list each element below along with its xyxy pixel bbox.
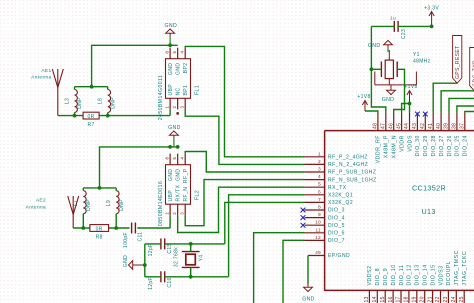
svg-text:45: 45: [396, 123, 402, 129]
svg-text:DIO_27: DIO_27: [439, 135, 445, 156]
svg-text:Y4: Y4: [198, 255, 204, 262]
svg-text:AE1: AE1: [41, 68, 51, 74]
svg-text:JTAG_TMSC: JTAG_TMSC: [454, 250, 460, 285]
svg-text:DIO_8: DIO_8: [375, 268, 381, 286]
junction: [168, 145, 172, 149]
svg-text:R8: R8: [96, 235, 103, 241]
junction: [189, 242, 193, 246]
wire: [433, 83, 457, 112]
svg-text:X32K_Q2: X32K_Q2: [328, 200, 353, 206]
svg-text:C23: C23: [401, 29, 407, 39]
svg-text:GND: GND: [175, 63, 181, 75]
svg-text:DIO_12: DIO_12: [407, 264, 413, 285]
svg-text:12pF: 12pF: [148, 244, 154, 257]
wire: [254, 233, 305, 303]
svg-text:DIO_26: DIO_26: [447, 135, 453, 156]
wire: [185, 180, 304, 226]
junction: [90, 85, 94, 89]
svg-text:14: 14: [372, 296, 378, 302]
svg-text:DIO_9: DIO_9: [383, 268, 389, 286]
svg-text:3: 3: [180, 212, 185, 215]
svg-text:DNP: DNP: [110, 97, 116, 109]
ground: [387, 90, 396, 94]
svg-text:41: 41: [428, 123, 434, 129]
svg-text:RF_N: RF_N: [183, 187, 189, 202]
svg-text:DIO_11: DIO_11: [399, 265, 405, 286]
wire: [92, 45, 178, 86]
svg-text:X32K_Q1: X32K_Q1: [328, 193, 353, 199]
svg-text:100pF: 100pF: [123, 232, 129, 248]
wire: [178, 187, 305, 232]
svg-text:Antenna: Antenna: [26, 205, 46, 211]
svg-text:Y1: Y1: [413, 52, 420, 58]
svg-text:VDDS2: VDDS2: [367, 265, 373, 285]
svg-text:47: 47: [381, 123, 387, 129]
junction: [176, 145, 180, 149]
wire: [370, 26, 372, 69]
svg-text:46: 46: [388, 123, 394, 129]
svg-text:DIO_25: DIO_25: [455, 135, 461, 156]
wire: [371, 25, 394, 27]
svg-text:C16: C16: [167, 277, 173, 287]
svg-text:DIO_3: DIO_3: [328, 208, 345, 214]
filter FL2: [166, 165, 191, 205]
wire: [409, 104, 411, 113]
svg-text:2450BM14G0011: 2450BM14G0011: [158, 75, 164, 120]
junction: [81, 226, 85, 230]
svg-text:GPS_RESET: GPS_RESET: [455, 45, 461, 79]
svg-text:0R: 0R: [88, 114, 95, 120]
svg-text:C11: C11: [137, 232, 143, 242]
svg-text:X48M_N: X48M_N: [392, 135, 398, 158]
svg-text:44: 44: [404, 123, 410, 129]
wire: [398, 25, 432, 27]
inductor L3: [75, 90, 78, 113]
svg-text:43: 43: [412, 123, 418, 129]
ground: [304, 287, 313, 291]
svg-text:1: 1: [165, 106, 170, 109]
no-connect pin 9: [301, 215, 306, 220]
svg-text:DIO_7: DIO_7: [328, 238, 345, 244]
svg-text:GND: GND: [168, 63, 174, 75]
wire: [145, 276, 161, 278]
svg-text:UBP: UBP: [168, 190, 174, 202]
svg-text:17: 17: [396, 296, 402, 302]
svg-text:X48M_P: X48M_P: [384, 135, 390, 158]
capacitor C11: [131, 223, 133, 234]
svg-text:1u: 1u: [390, 16, 396, 22]
no-connect pin 43: [415, 112, 420, 117]
resistor R8: [90, 225, 109, 232]
junction: [370, 67, 374, 71]
svg-text:48MHz: 48MHz: [413, 59, 431, 65]
svg-text:0R: 0R: [96, 226, 103, 232]
junction: [430, 25, 434, 29]
svg-text:19: 19: [412, 296, 418, 302]
inductor L8: [108, 90, 111, 113]
ground: [129, 261, 133, 270]
resistor R7: [83, 112, 99, 119]
svg-text:21: 21: [427, 296, 433, 302]
ground: [170, 131, 179, 135]
svg-text:3: 3: [180, 106, 185, 109]
svg-text:DNP: DNP: [77, 97, 83, 109]
wire: [145, 243, 161, 245]
inductor L9: [116, 191, 119, 214]
svg-text:RF_P_2_4GHZ: RF_P_2_4GHZ: [328, 155, 368, 161]
svg-text:0850BM14E0016: 0850BM14E0016: [158, 181, 164, 226]
svg-text:NC: NC: [175, 87, 181, 95]
svg-text:DIO_28: DIO_28: [431, 135, 437, 156]
crystal Y4: [186, 254, 196, 265]
junction: [114, 226, 118, 230]
svg-text:DIO_24: DIO_24: [463, 135, 469, 156]
power +1V8: [362, 101, 367, 106]
power +1V8: [407, 91, 412, 96]
svg-text:+1V8: +1V8: [404, 84, 417, 90]
svg-text:C15: C15: [167, 243, 173, 253]
junction: [189, 275, 193, 279]
wire: [75, 86, 108, 88]
crystal Y1: [380, 62, 382, 78]
svg-text:2: 2: [318, 159, 321, 164]
svg-text:RF_N_SUB_1GHZ: RF_N_SUB_1GHZ: [328, 177, 377, 183]
svg-text:16: 16: [388, 296, 394, 302]
svg-text:40: 40: [436, 123, 442, 129]
junction: [98, 186, 102, 190]
svg-text:U13: U13: [422, 207, 436, 216]
svg-text:22: 22: [435, 296, 441, 302]
svg-text:BP2: BP2: [183, 63, 189, 74]
IC U13 bottom pins: [368, 290, 370, 303]
svg-text:GND: GND: [168, 169, 174, 181]
svg-text:UBP: UBP: [168, 84, 174, 96]
svg-text:GND: GND: [165, 23, 178, 29]
svg-text:DIO_29: DIO_29: [423, 135, 429, 156]
svg-text:20: 20: [419, 296, 425, 302]
junction: [106, 114, 110, 118]
svg-text:12: 12: [315, 235, 321, 240]
svg-text:RF_P: RF_P: [183, 168, 189, 183]
svg-text:38: 38: [452, 123, 458, 129]
no-connect pin 8: [301, 208, 306, 213]
svg-text:DNP: DNP: [86, 199, 92, 211]
wire: [307, 256, 309, 285]
svg-text:8: 8: [165, 157, 170, 160]
svg-text:RF_P_SUB_1GHZ: RF_P_SUB_1GHZ: [328, 170, 376, 176]
svg-text:49: 49: [315, 250, 321, 255]
svg-text:DNP: DNP: [119, 199, 125, 211]
svg-text:7: 7: [318, 197, 321, 202]
svg-text:GND: GND: [382, 97, 395, 103]
svg-text:R7: R7: [88, 122, 95, 128]
svg-text:23: 23: [443, 296, 449, 302]
global label GPS_RESET: [453, 36, 462, 84]
capacitor C23: [393, 21, 395, 32]
svg-text:VDDR: VDDR: [399, 135, 405, 152]
svg-text:12pF: 12pF: [148, 277, 154, 290]
IC U13 top pins: [377, 113, 379, 131]
capacitor C16: [160, 271, 162, 282]
wire: [73, 227, 90, 229]
svg-text:CC1352R: CC1352R: [412, 183, 446, 192]
svg-text:5: 5: [318, 182, 321, 187]
wire: [169, 109, 171, 115]
svg-text:+3.3V: +3.3V: [424, 6, 439, 12]
wire: [169, 216, 171, 228]
svg-text:1: 1: [165, 212, 170, 215]
IC U13 left pins: [305, 156, 325, 158]
svg-text:4: 4: [180, 51, 185, 54]
svg-text:DCOUPL: DCOUPL: [446, 261, 452, 286]
svg-text:5: 5: [172, 157, 177, 160]
svg-text:42: 42: [420, 123, 426, 129]
svg-text:DIO_10: DIO_10: [391, 264, 397, 285]
svg-text:GND: GND: [175, 169, 181, 181]
svg-text:DIO_13: DIO_13: [415, 264, 421, 285]
svg-text:5: 5: [172, 51, 177, 54]
wire: [144, 244, 146, 277]
svg-text:DIO_4: DIO_4: [328, 215, 345, 221]
power +3.3V: [429, 12, 434, 17]
svg-text:37: 37: [460, 123, 466, 129]
ground: [166, 29, 175, 33]
svg-text:AE2: AE2: [36, 198, 46, 204]
junction: [168, 43, 172, 47]
svg-text:BP1: BP1: [183, 85, 189, 96]
svg-text:Antenna: Antenna: [31, 74, 51, 80]
wire: [229, 195, 305, 277]
svg-text:RX_TX: RX_TX: [328, 185, 347, 191]
svg-text:GND: GND: [123, 255, 129, 267]
wire: [365, 111, 378, 113]
svg-text:L3: L3: [64, 98, 70, 104]
svg-text:4: 4: [318, 174, 321, 179]
svg-text:48: 48: [373, 123, 379, 129]
svg-text:1: 1: [318, 151, 321, 156]
svg-text:24: 24: [451, 296, 457, 302]
svg-text:JTAG_TCKC: JTAG_TCKC: [462, 251, 468, 286]
svg-text:DIO_30: DIO_30: [415, 135, 421, 156]
svg-text:18: 18: [404, 296, 410, 302]
svg-text:GND: GND: [302, 297, 315, 303]
svg-text:RX/TX: RX/TX: [175, 184, 181, 201]
svg-text:9: 9: [318, 212, 321, 217]
svg-text:10: 10: [315, 220, 321, 225]
svg-text:RF_N_2_4GHZ: RF_N_2_4GHZ: [328, 162, 368, 168]
wire: [225, 202, 305, 244]
junction: [73, 114, 77, 118]
antenna AE2: [68, 196, 74, 215]
svg-text:L9: L9: [106, 200, 112, 206]
svg-text:GND: GND: [168, 125, 181, 131]
wire: [100, 147, 178, 188]
junction: [143, 263, 147, 267]
svg-text:6: 6: [318, 189, 321, 194]
svg-text:VDDS3: VDDS3: [438, 265, 444, 285]
wire: [371, 69, 385, 112]
no-connect pin 42: [423, 112, 428, 117]
wire: [394, 69, 405, 112]
svg-text:DIO_15: DIO_15: [430, 264, 436, 285]
no-connect pin 10: [301, 223, 306, 228]
svg-text:2: 2: [172, 106, 177, 109]
svg-text:8: 8: [165, 51, 170, 54]
inductor L7: [83, 191, 86, 214]
svg-text:8: 8: [318, 205, 321, 210]
svg-text:11: 11: [316, 227, 322, 232]
svg-text:DIO_6: DIO_6: [328, 231, 345, 237]
svg-text:2: 2: [172, 212, 177, 215]
wire: [185, 152, 304, 173]
global label (clipped): [470, 48, 474, 91]
svg-text:VDDS: VDDS: [407, 135, 413, 152]
svg-text:L7: L7: [73, 200, 79, 206]
wire: [185, 109, 304, 164]
svg-text:+1V8: +1V8: [357, 94, 370, 100]
filter FL1: [166, 59, 191, 99]
svg-text:L8: L8: [98, 98, 104, 104]
wire: [402, 104, 410, 113]
wire: [185, 46, 304, 156]
svg-text:GND: GND: [368, 43, 381, 49]
wire: [58, 115, 83, 117]
svg-text:4: 4: [180, 157, 185, 160]
ground: [384, 41, 393, 45]
svg-text:DIO_14: DIO_14: [423, 264, 429, 285]
junction: [408, 102, 412, 106]
svg-text:FL1: FL1: [195, 85, 201, 95]
svg-text:FL2: FL2: [195, 190, 201, 200]
svg-text:EP/GND: EP/GND: [328, 253, 350, 259]
svg-text:39: 39: [444, 123, 450, 129]
svg-text:DIO_5: DIO_5: [328, 223, 345, 229]
IC U13 CC1352R outline: [325, 131, 474, 291]
wire: [83, 187, 116, 189]
pin 2 no-connect dot: [176, 112, 179, 115]
antenna AE1: [52, 69, 58, 88]
svg-text:VDDR_RF: VDDR_RF: [376, 135, 382, 163]
svg-text:15: 15: [380, 296, 386, 302]
capacitor C15: [160, 238, 162, 249]
svg-text:32.768k: 32.768k: [173, 247, 179, 267]
svg-text:13: 13: [364, 296, 370, 302]
svg-text:3: 3: [318, 167, 321, 172]
svg-text:25: 25: [459, 296, 465, 302]
wire: [283, 240, 305, 303]
